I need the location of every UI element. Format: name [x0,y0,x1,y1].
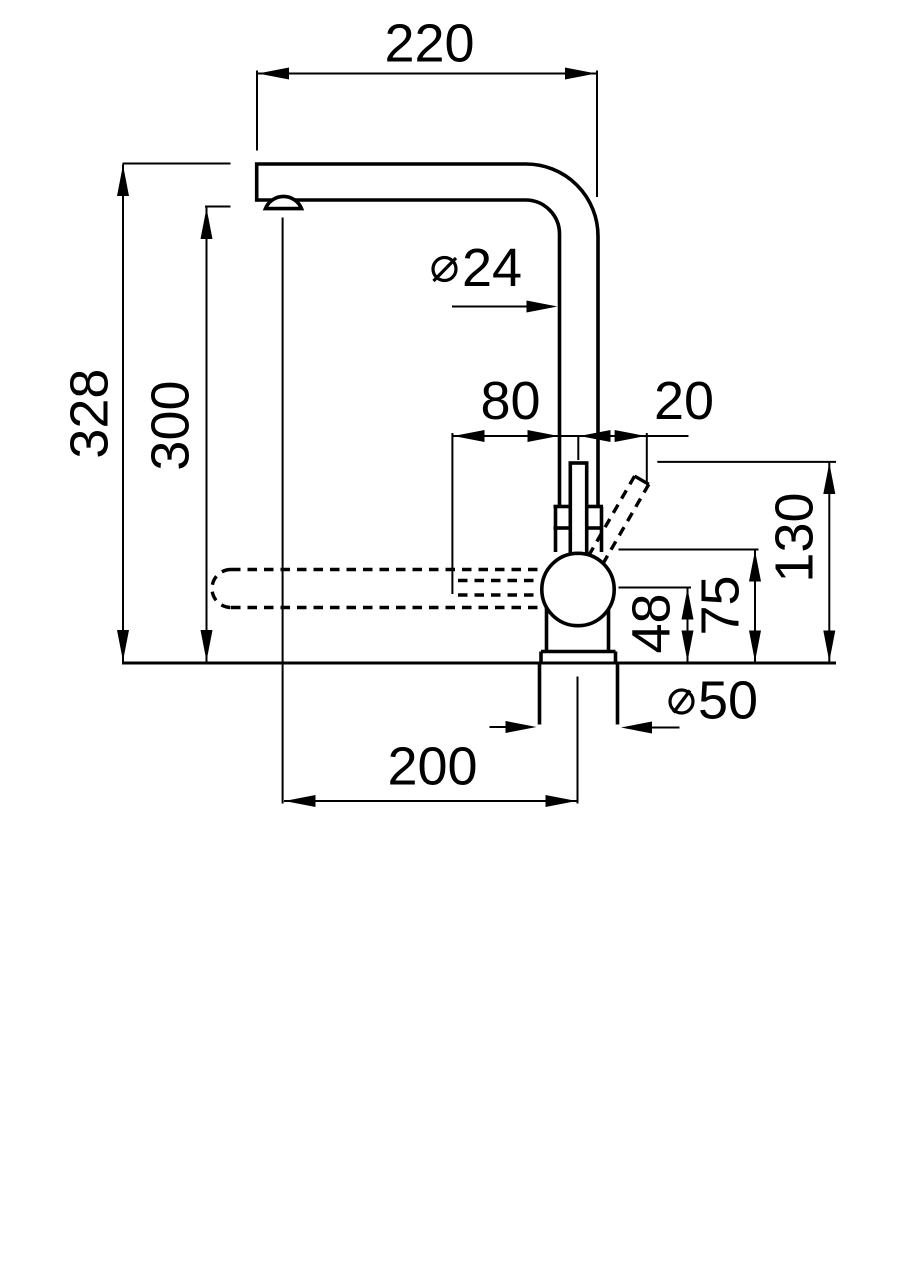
neck right edge [607,600,611,652]
diameter 24 symbol slash [434,258,457,281]
dimension 328 arrow bottom [117,630,129,661]
dimension 75 arrow top [749,551,761,582]
dimension 20 arrow right [615,430,646,442]
wire spout inner outline [257,200,560,505]
deck line [122,662,836,665]
collar divider left [554,526,569,530]
dimension 328 extension line top [123,163,231,165]
diameter 50 symbol circle [670,690,693,713]
dimension 80 arrow left [454,430,485,442]
svg-text:20: 20 [654,371,714,431]
aerator centerline extension [282,218,284,804]
diameter 24 leader line [452,306,540,308]
svg-text:50: 50 [698,671,758,731]
svg-text:220: 220 [384,14,474,74]
flange left edge [539,652,543,663]
svg-text:75: 75 [691,575,751,635]
diameter 24 symbol circle [433,258,456,281]
svg-text:328: 328 [59,369,119,459]
dimension 200 arrow left [285,795,316,807]
dimension 75 line [754,550,756,662]
dimension 200 arrow right [546,795,577,807]
neck left edge [545,600,549,652]
svg-text:24: 24 [462,238,522,298]
dimension 20 extension line right [646,433,648,483]
dimension 80 arrow right [528,430,559,442]
dimension 220 arrow left [258,68,289,80]
dimension 220 extension line left [256,71,258,151]
dimension 130 arrow bottom [823,631,835,662]
dimension 328 arrow top [117,165,129,196]
collar divider right [589,526,604,530]
dimension 130 extension line top [657,461,836,463]
dimension 300 extension line top [205,206,231,208]
diameter 50 leader right line [645,727,680,729]
dimension 300 arrow bottom [201,630,213,661]
dashed spout plan taper line lower [458,593,540,596]
dimension 220 arrow right [565,68,596,80]
dimension 80 extension line left [451,433,453,594]
dashed spout plan view capsule bottom [231,606,540,609]
dashed tilted lever [590,476,649,562]
dimension 75 extension line top [619,549,759,551]
collar left edge [554,507,558,553]
dimension 48 arrow top [682,589,694,620]
dimension 200 line [284,800,578,802]
svg-text:48: 48 [622,593,682,653]
dashed spout plan view capsule left cap [212,570,231,608]
collar right edge [600,507,604,553]
dimension 220 line [257,73,597,75]
svg-text:300: 300 [141,380,201,470]
collar top line left [554,505,569,509]
svg-text:80: 80 [480,371,540,431]
diameter 50 leader left line [490,726,516,728]
diameter 50 leader right arrow [621,722,652,734]
diameter 24 leader arrow [527,301,558,313]
dimension 75 arrow bottom [749,631,761,662]
dimension 130 arrow top [823,463,835,494]
aerator tip [266,196,302,208]
shank right edge [616,665,620,725]
shank left edge [538,665,542,725]
dimension 80-20 line [452,435,688,437]
dimension 48 extension line top [619,587,692,589]
ball joint sphere [542,553,614,625]
faucet axis centerline extension [577,677,579,804]
diameter 50 symbol slash [674,691,691,713]
collar top line right [589,505,604,509]
diameter 50 leader left arrow [506,721,537,733]
dimension 20 extension stub at lever axis [577,436,579,460]
dimension 300 line [206,208,208,662]
flange top [541,650,616,654]
lever handle upright [570,463,586,558]
dimension 48 line [687,588,689,662]
dimension 220 extension line right [596,71,598,198]
dashed spout plan taper line upper [458,579,540,582]
wire spout outer outline [257,164,598,505]
dimension 20 arrow left [580,430,611,442]
dimension 130 line [828,463,830,663]
dimension 300 arrow top [201,208,213,239]
dimension 328 line [122,165,124,662]
dashed spout plan view capsule top [231,568,540,571]
svg-text:200: 200 [387,737,477,797]
dimension 48 arrow bottom [682,631,694,662]
flange right edge [614,652,618,663]
svg-text:130: 130 [765,492,825,582]
